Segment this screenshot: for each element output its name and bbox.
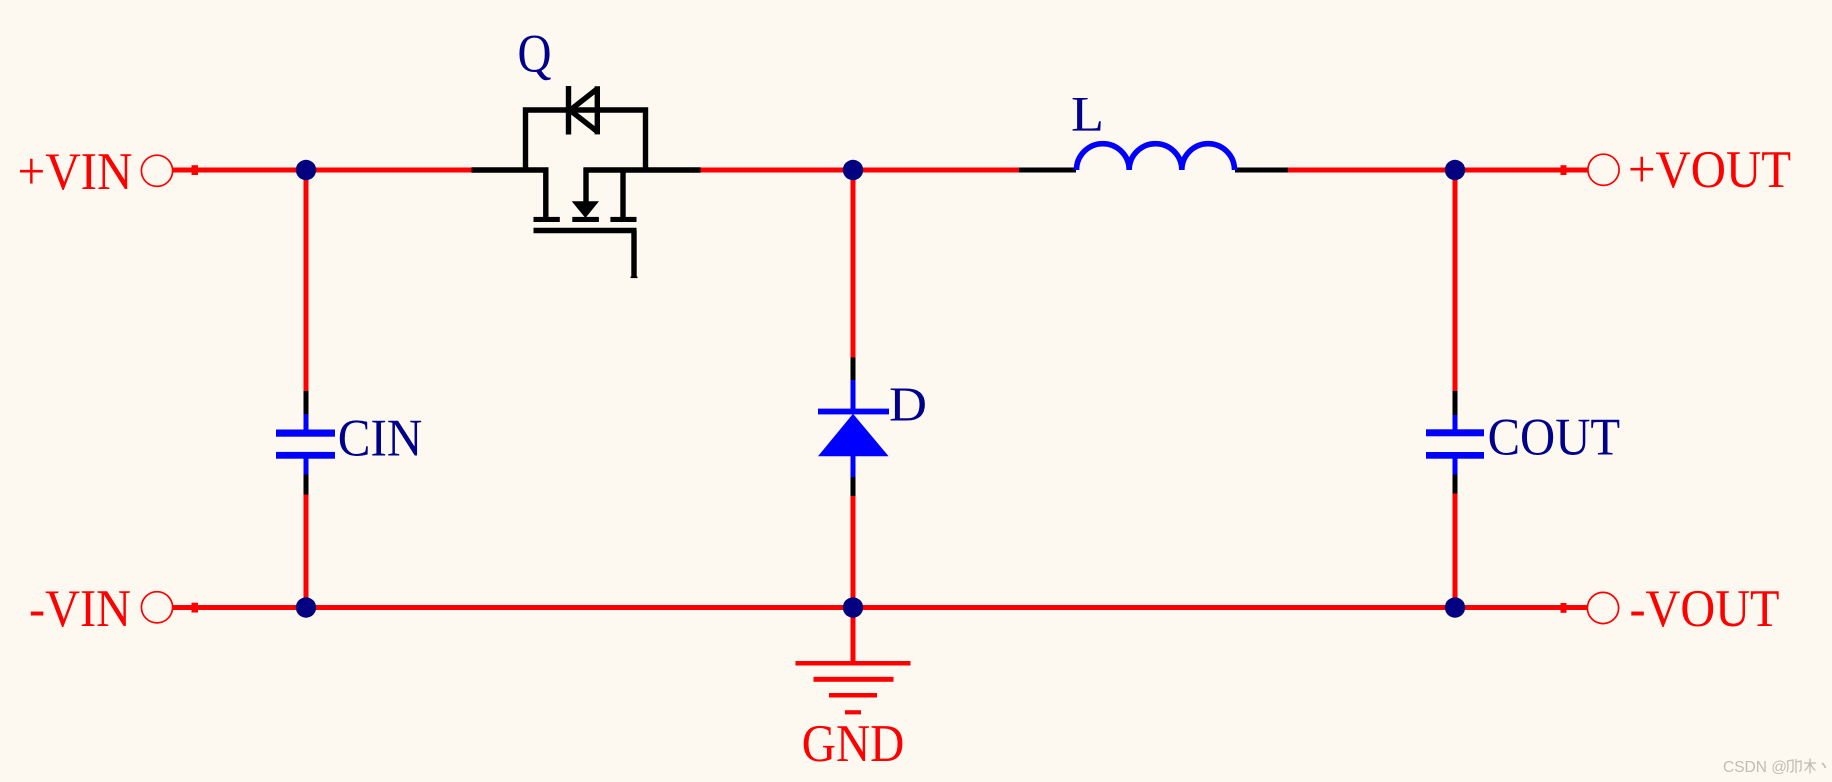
svg-text:COUT: COUT <box>1488 409 1621 467</box>
svg-text:+VOUT: +VOUT <box>1628 141 1791 199</box>
svg-text:-VIN: -VIN <box>29 580 131 638</box>
svg-text:D: D <box>889 376 927 431</box>
svg-text:Q: Q <box>518 23 552 83</box>
svg-text:CIN: CIN <box>338 410 423 468</box>
svg-text:+VIN: +VIN <box>18 143 133 201</box>
svg-text:GND: GND <box>802 715 905 773</box>
svg-text:L: L <box>1071 86 1104 142</box>
svg-text:CSDN @: CSDN @ <box>1723 759 1787 776</box>
svg-text:-VOUT: -VOUT <box>1630 580 1780 638</box>
